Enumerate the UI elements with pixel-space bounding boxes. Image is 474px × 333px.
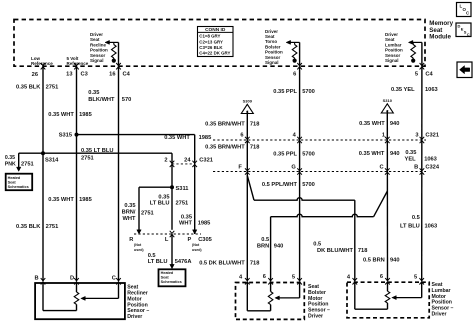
svg-text:5700: 5700: [302, 89, 315, 95]
svg-text:16: 16: [109, 72, 115, 78]
svg-text:24: 24: [184, 157, 191, 163]
svg-text:0.35 WHT: 0.35 WHT: [359, 151, 385, 157]
svg-text:2751: 2751: [176, 200, 189, 206]
svg-text:C321: C321: [199, 157, 213, 163]
svg-text:0.35 YEL: 0.35 YEL: [391, 87, 415, 93]
svg-text:2751: 2751: [81, 156, 94, 162]
svg-text:5: 5: [292, 274, 295, 280]
svg-text:6: 6: [240, 133, 243, 139]
svg-text:S311: S311: [176, 186, 189, 192]
svg-text:S310: S310: [383, 98, 393, 103]
svg-text:0.35: 0.35: [405, 150, 416, 156]
svg-text:C2=13 GRY: C2=13 GRY: [199, 39, 223, 44]
svg-text:570: 570: [122, 97, 132, 103]
svg-text:Driver: Driver: [308, 314, 323, 320]
svg-text:B: B: [414, 164, 418, 170]
svg-text:0.35 PPL: 0.35 PPL: [273, 89, 297, 95]
svg-text:0.35 BRN/WHT: 0.35 BRN/WHT: [205, 144, 245, 150]
svg-text:0.35 BLK: 0.35 BLK: [16, 85, 41, 91]
svg-text:C: C: [379, 164, 383, 170]
svg-text:WHT: WHT: [123, 216, 136, 222]
svg-text:YEL: YEL: [405, 156, 417, 162]
svg-text:940: 940: [390, 121, 400, 127]
svg-text:5: 5: [415, 72, 418, 78]
svg-text:1985: 1985: [79, 197, 92, 203]
svg-text:S315: S315: [59, 133, 72, 139]
svg-text:C321: C321: [425, 133, 439, 139]
svg-text:C3=26 BLK: C3=26 BLK: [199, 45, 223, 50]
svg-text:S314: S314: [45, 157, 59, 163]
svg-text:0.35 PPL: 0.35 PPL: [273, 152, 297, 158]
svg-text:5700: 5700: [302, 182, 315, 188]
svg-text:C3: C3: [81, 72, 88, 78]
svg-text:WHT: WHT: [179, 221, 192, 227]
svg-text:0.35: 0.35: [88, 90, 99, 96]
svg-text:F: F: [238, 164, 242, 170]
svg-text:BRN: BRN: [257, 244, 269, 250]
svg-text:DK BLU/WHT: DK BLU/WHT: [317, 248, 354, 254]
svg-text:0.5 PPL/WHT: 0.5 PPL/WHT: [262, 182, 298, 188]
svg-text:Seat: Seat: [8, 180, 17, 184]
svg-text:718: 718: [250, 261, 260, 267]
svg-text:(Not: (Not: [134, 243, 142, 247]
svg-text:S309: S309: [243, 99, 253, 104]
svg-text:1985: 1985: [198, 221, 211, 227]
svg-text:LT BLU: LT BLU: [148, 259, 168, 265]
svg-text:5476A: 5476A: [175, 259, 192, 265]
svg-text:PNK: PNK: [5, 162, 16, 168]
svg-text:Driver: Driver: [127, 314, 142, 320]
svg-text:0.35 WHT: 0.35 WHT: [164, 135, 190, 141]
svg-text:B: B: [34, 276, 38, 282]
svg-text:Module: Module: [429, 33, 451, 40]
svg-text:940: 940: [390, 151, 400, 157]
svg-text:13: 13: [66, 72, 72, 78]
svg-text:Signal: Signal: [385, 58, 399, 63]
svg-text:2751: 2751: [46, 224, 59, 230]
svg-text:2751: 2751: [141, 211, 154, 217]
svg-text:0.35 WHT: 0.35 WHT: [359, 121, 385, 127]
svg-text:1985: 1985: [199, 135, 212, 141]
svg-text:1: 1: [382, 133, 385, 139]
svg-text:1063: 1063: [425, 87, 438, 93]
svg-text:0.5: 0.5: [148, 253, 156, 259]
svg-text:1063: 1063: [425, 224, 438, 230]
svg-text:LT BLU: LT BLU: [150, 200, 170, 206]
svg-text:C4=22 DK GRY: C4=22 DK GRY: [199, 51, 230, 56]
svg-text:G: G: [291, 164, 296, 170]
svg-text:L: L: [165, 237, 169, 243]
svg-text:used): used): [192, 248, 202, 252]
svg-text:0.5: 0.5: [412, 215, 420, 221]
svg-text:0.5: 0.5: [261, 237, 269, 243]
svg-text:Heated: Heated: [161, 271, 174, 275]
svg-text:P: P: [188, 237, 192, 243]
svg-text:0.35 LT BLU: 0.35 LT BLU: [81, 148, 113, 154]
svg-text:Seat: Seat: [161, 276, 170, 280]
svg-text:2: 2: [164, 157, 167, 163]
svg-text:718: 718: [250, 144, 260, 150]
svg-text:(Not: (Not: [192, 243, 200, 247]
svg-text:C: C: [467, 32, 470, 37]
svg-text:C305: C305: [198, 237, 212, 243]
svg-text:5700: 5700: [302, 152, 315, 158]
svg-text:0.5 BRN: 0.5 BRN: [363, 257, 385, 263]
svg-text:D: D: [70, 276, 74, 282]
svg-text:1063: 1063: [424, 156, 437, 162]
svg-text:used): used): [134, 248, 144, 252]
svg-text:0.35: 0.35: [124, 203, 135, 209]
svg-text:Signal: Signal: [90, 58, 104, 63]
svg-text:LT BLU: LT BLU: [400, 224, 420, 230]
svg-text:0.5: 0.5: [313, 242, 321, 248]
svg-text:0.35: 0.35: [181, 214, 192, 220]
svg-text:0.35 WHT: 0.35 WHT: [48, 112, 74, 118]
svg-text:6: 6: [263, 274, 266, 280]
svg-text:BLK/WHT: BLK/WHT: [88, 97, 115, 103]
svg-text:1985: 1985: [79, 112, 92, 118]
svg-text:BRN/: BRN/: [122, 210, 136, 216]
svg-text:0.5 DK BLU/WHT: 0.5 DK BLU/WHT: [199, 261, 245, 267]
svg-text:26: 26: [32, 72, 38, 78]
svg-text:C4: C4: [123, 72, 131, 78]
svg-text:0.35: 0.35: [5, 155, 15, 161]
svg-text:Heated: Heated: [8, 176, 21, 180]
svg-text:940: 940: [274, 244, 284, 250]
svg-text:718: 718: [250, 122, 260, 128]
svg-text:C1=8 GRY: C1=8 GRY: [199, 34, 220, 39]
svg-text:6: 6: [380, 274, 383, 280]
svg-text:940: 940: [390, 257, 400, 263]
svg-text:2751: 2751: [46, 85, 59, 91]
svg-text:5: 5: [414, 274, 417, 280]
svg-text:2751: 2751: [21, 162, 34, 168]
svg-text:0.35 BRN/WHT: 0.35 BRN/WHT: [205, 122, 245, 128]
svg-text:Schematics: Schematics: [161, 280, 182, 284]
svg-text:Schematics: Schematics: [8, 185, 29, 189]
svg-text:C4: C4: [425, 72, 433, 78]
svg-text:3: 3: [415, 133, 418, 139]
svg-text:718: 718: [358, 248, 368, 254]
svg-text:6: 6: [293, 72, 296, 78]
svg-text:C324: C324: [425, 164, 439, 170]
svg-text:0.35 BLK: 0.35 BLK: [16, 224, 41, 230]
svg-text:R: R: [129, 237, 133, 243]
svg-text:Signal: Signal: [265, 60, 279, 65]
svg-text:C: C: [112, 276, 116, 282]
svg-text:Driver: Driver: [432, 312, 447, 318]
svg-text:0.35 WHT: 0.35 WHT: [48, 197, 74, 203]
